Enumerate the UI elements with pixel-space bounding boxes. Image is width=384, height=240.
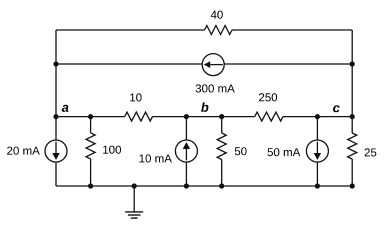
node c junction dot <box>350 114 355 119</box>
node label a <box>62 105 69 112</box>
junction dot I50 bottom <box>315 183 320 188</box>
label 250 (R250 value) <box>259 93 277 101</box>
current source I50 (50 mA) circle <box>306 140 328 162</box>
junction dot R50 top <box>219 114 224 119</box>
wire R250 to node c <box>283 116 352 118</box>
node label c <box>333 105 340 112</box>
node label b <box>201 102 208 112</box>
current source I10 arrow (points up) <box>183 142 190 160</box>
junction dot R50 bottom <box>219 183 224 188</box>
resistor R100 (100 Ω) <box>86 133 95 159</box>
current source I10 (10 mA) circle <box>175 140 197 162</box>
wire second-rail right segment <box>224 63 352 65</box>
wire bottom rail <box>56 185 352 187</box>
wire second-rail left segment <box>56 63 202 65</box>
label 25 (R25 value) <box>365 148 377 156</box>
ground stem wire <box>133 186 135 212</box>
resistor R40 (40 Ω) <box>205 26 233 35</box>
label 300 mA (I300 value) <box>196 84 235 92</box>
label 10 mA (I10 value) <box>140 154 172 162</box>
node b junction dot (I10 top) <box>184 114 189 119</box>
junction dot R100 bottom <box>88 183 93 188</box>
label 10 (R10 value) <box>130 93 141 101</box>
wire I50 branch bottom <box>316 162 318 186</box>
junction dot bottom-right corner <box>350 183 355 188</box>
resistor R10 (10 Ω) <box>125 112 153 121</box>
wire I50 branch top <box>316 117 318 140</box>
wire left rail lower <box>55 162 57 186</box>
current source I50 arrow (points down) <box>314 142 321 160</box>
current source I20 arrow (points down) <box>52 142 59 160</box>
wire right rail upper <box>351 30 353 133</box>
label 50 mA (I50 value) <box>268 148 301 156</box>
label 100 (R100 value) <box>103 146 121 154</box>
resistor R50 (50 Ω) <box>217 133 226 160</box>
current source I20 (20 mA) circle <box>45 140 67 162</box>
wire I10 branch bottom <box>185 162 187 186</box>
wire R100 branch bottom <box>90 159 92 186</box>
current source I300 arrow (points left) <box>204 61 223 68</box>
label 40 (R40 value) <box>211 11 223 19</box>
junction dot ground tap <box>132 183 137 188</box>
node a junction dot <box>53 114 58 119</box>
ground symbol <box>125 212 143 218</box>
wire top-right segment <box>232 29 352 31</box>
wire right rail lower <box>351 159 353 186</box>
wire left rail upper <box>55 30 57 140</box>
current source I300 (300 mA) circle <box>202 54 224 76</box>
junction dot R100 top <box>88 114 93 119</box>
wire top-left segment <box>56 29 205 31</box>
wire R50 branch top <box>221 117 223 133</box>
label 50 (R50 value) <box>235 147 247 155</box>
wire R100 branch top <box>90 117 92 133</box>
junction dot left rail / 300mA rail <box>53 61 58 66</box>
junction dot right rail / 300mA rail <box>350 61 355 66</box>
resistor R250 (250 Ω) <box>255 112 283 121</box>
junction dot I50 top <box>315 114 320 119</box>
wire node a to R10 <box>56 116 125 118</box>
junction dot I10 bottom <box>184 183 189 188</box>
label 20 mA (I20 value) <box>7 147 40 155</box>
wire R50 branch bottom <box>221 160 223 187</box>
wire R10 to R250 (through node b) <box>153 116 255 118</box>
wire I10 branch top <box>185 117 187 140</box>
resistor R25 (25 Ω) <box>348 133 357 159</box>
